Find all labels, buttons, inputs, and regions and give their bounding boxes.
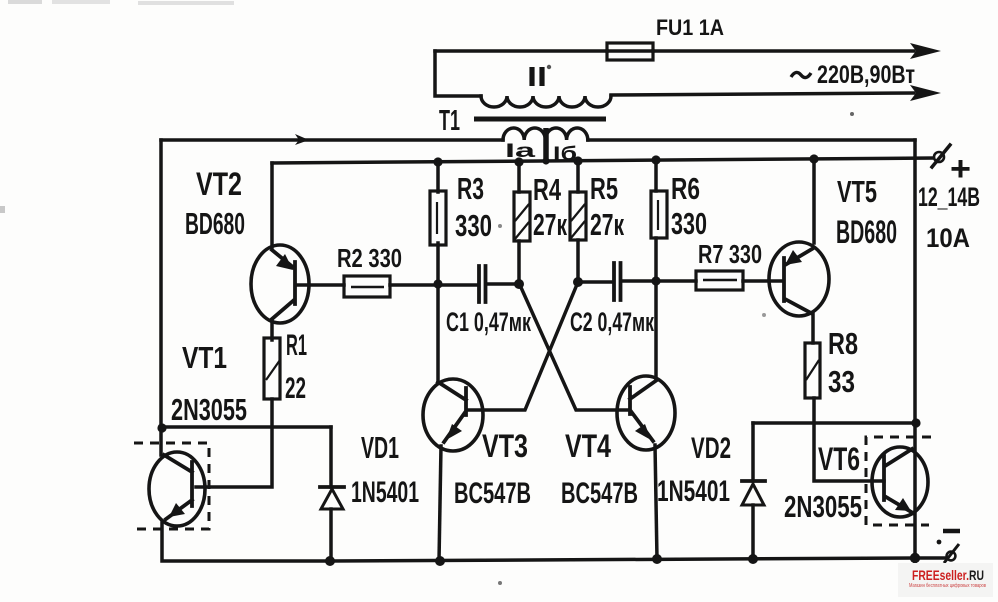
wire R2 to C1	[390, 283, 477, 287]
svg-text:R5: R5	[590, 171, 618, 206]
scan speck left edge	[0, 206, 5, 213]
terminal plus	[932, 145, 950, 167]
capacitor C1	[479, 266, 486, 302]
scan speck near R7	[762, 313, 766, 317]
svg-text:R2 330: R2 330	[337, 243, 402, 273]
wire VT3 emitter to bottom bus	[439, 446, 441, 561]
fuse FU1	[607, 43, 653, 60]
svg-text:10А: 10А	[926, 223, 970, 253]
wire right frame vertical	[913, 140, 917, 558]
svg-text:22: 22	[285, 372, 306, 405]
wire VT4 collector	[654, 281, 658, 379]
capacitor C2	[614, 263, 621, 300]
node right frame VD2	[911, 418, 920, 427]
wire VT2 emitter to R2	[298, 283, 344, 287]
node VD2 bottom	[748, 554, 758, 564]
dashed box VT1	[134, 443, 209, 529]
resistor R1	[264, 338, 280, 399]
wire VT3 collector	[436, 284, 440, 382]
label minus sign	[943, 529, 960, 534]
svg-text:VD2: VD2	[691, 432, 731, 465]
wire R1 down to VT1 base	[196, 399, 272, 487]
scan speck left of R4	[498, 224, 502, 228]
node right frame bottom	[910, 553, 920, 563]
wire left frame vertical	[159, 140, 163, 455]
wire bottom bus	[331, 558, 916, 561]
svg-text:VD1: VD1	[361, 430, 399, 465]
svg-text:C2 0,47мк: C2 0,47мк	[570, 307, 654, 337]
wire VT5 collector from bus	[812, 159, 816, 243]
svg-text:BC547B: BC547B	[561, 477, 638, 510]
svg-text:FREEseller.RU: FREEseller.RU	[912, 567, 984, 583]
scan speck near II label	[547, 65, 551, 69]
svg-text:VT2: VT2	[196, 166, 242, 202]
node R3 top	[433, 157, 442, 166]
node R6 top	[651, 155, 660, 164]
transformer T1 secondary winding II	[481, 96, 611, 107]
wire frame top left (to primary left end)	[161, 138, 503, 142]
svg-text:BD680: BD680	[836, 214, 897, 250]
wire VT1 emitter to bottom bus corner	[162, 523, 331, 561]
transistor VT6	[872, 447, 928, 517]
wire collector junction to VD1	[162, 425, 331, 429]
node R5 top	[573, 156, 582, 165]
wire VD2 top to right frame	[753, 421, 916, 425]
node VT4 bottom	[652, 554, 662, 564]
svg-text:R6: R6	[671, 171, 700, 206]
svg-text:33: 33	[828, 364, 855, 399]
resistor R5	[570, 161, 586, 282]
svg-text:BC547B: BC547B	[454, 477, 531, 510]
resistor R4	[514, 162, 530, 284]
svg-text:VT1: VT1	[182, 340, 227, 375]
wire primary right end to right frame corner	[588, 138, 915, 142]
svg-text:330: 330	[455, 208, 492, 243]
transformer T1 center tap	[543, 128, 549, 162]
resistor R2	[344, 276, 390, 297]
scan speck mid bottom	[498, 581, 502, 585]
node VT5 collector top	[809, 154, 818, 163]
wire AC top line	[435, 49, 914, 53]
svg-text:2N3055: 2N3055	[171, 392, 247, 427]
svg-text:1N5401: 1N5401	[657, 475, 730, 508]
label ~220V 90W	[791, 72, 811, 77]
node VD1 bottom	[325, 556, 335, 566]
diode VD1	[320, 427, 344, 562]
wire AC left riser	[435, 51, 481, 96]
svg-text:27к: 27к	[533, 207, 567, 242]
arrowhead AC bottom	[910, 85, 941, 101]
svg-text:27к: 27к	[590, 207, 624, 242]
logo background	[898, 563, 993, 597]
wire node C to C2	[578, 280, 612, 284]
svg-text:T1: T1	[439, 105, 460, 137]
svg-text:FU1 1A: FU1 1A	[656, 15, 724, 40]
svg-text:R4: R4	[533, 172, 562, 207]
wire bus to minus terminal	[916, 556, 946, 560]
wire C2 to R7	[623, 279, 696, 283]
svg-text:VT5: VT5	[837, 174, 877, 209]
svg-text:C1 0,47мк: C1 0,47мк	[446, 307, 531, 337]
scan speck top-middle	[138, 1, 234, 5]
transistor VT4	[617, 376, 675, 450]
transistor VT5	[769, 242, 829, 316]
wire VT2 base from bus	[270, 163, 274, 247]
wire R8 to VT6 base	[814, 398, 884, 481]
svg-text:R7 330: R7 330	[698, 239, 762, 269]
arrowhead AC top	[910, 43, 941, 59]
arrow speck on frame top	[295, 134, 309, 145]
svg-text:2N3055: 2N3055	[784, 489, 862, 524]
resistor R7	[696, 271, 743, 290]
svg-text:220В,90Вт: 220В,90Вт	[817, 61, 915, 89]
node D junction R6 bottom	[651, 276, 660, 285]
svg-text:12_14В: 12_14В	[918, 182, 980, 212]
svg-text:R8: R8	[828, 326, 858, 361]
svg-text:R3: R3	[457, 171, 484, 206]
terminal minus	[944, 544, 959, 563]
wire R7 to VT5 base	[743, 279, 783, 283]
transistor VT1	[149, 452, 205, 526]
node C junction R5 bottom	[573, 277, 583, 287]
transformer T1 primary winding Ia Ib	[503, 128, 588, 140]
svg-text:VT4: VT4	[565, 428, 611, 464]
node VT3 bottom	[435, 556, 445, 566]
resistor R8	[805, 343, 820, 398]
wire VT2 emitter chain to R1	[270, 320, 274, 340]
node A junction R3 bottom	[433, 279, 442, 288]
svg-text:BD680: BD680	[185, 206, 245, 241]
resistor R6	[651, 160, 667, 281]
svg-text:Магазин бесплатных цифровых то: Магазин бесплатных цифровых товаров	[909, 583, 986, 589]
node VT1 collector junction	[157, 423, 166, 432]
svg-text:1N5401: 1N5401	[351, 476, 419, 509]
transistor VT3	[423, 379, 483, 451]
scan speck above bus right	[850, 112, 854, 116]
svg-text:R1: R1	[286, 329, 307, 362]
diode VD2	[742, 423, 765, 559]
wire C1 to node B	[488, 282, 519, 286]
node B junction R4 bottom	[514, 279, 524, 289]
wire +12V bus	[272, 158, 933, 163]
wire VT4 emitter to bottom bus	[655, 445, 657, 559]
wire VT5 emitter to R8	[811, 314, 815, 343]
svg-text:330: 330	[671, 206, 707, 241]
scan speck top-left	[8, 0, 42, 4]
resistor R3	[430, 162, 446, 284]
transformer T1 core	[474, 117, 606, 122]
wire AC bottom line	[611, 93, 914, 95]
wire crossing diagonal node C to VT3 base	[467, 282, 578, 410]
transistor VT2	[251, 245, 309, 323]
svg-text:VT6: VT6	[818, 441, 860, 477]
svg-text:II: II	[527, 61, 547, 92]
svg-text:VT3: VT3	[482, 428, 528, 464]
node R4 top	[514, 157, 523, 166]
wire crossing diagonal node B to VT4 base	[519, 283, 629, 410]
dashed box VT6	[866, 437, 931, 525]
node center tap junction	[542, 157, 549, 164]
scan speck near minus	[937, 540, 942, 545]
